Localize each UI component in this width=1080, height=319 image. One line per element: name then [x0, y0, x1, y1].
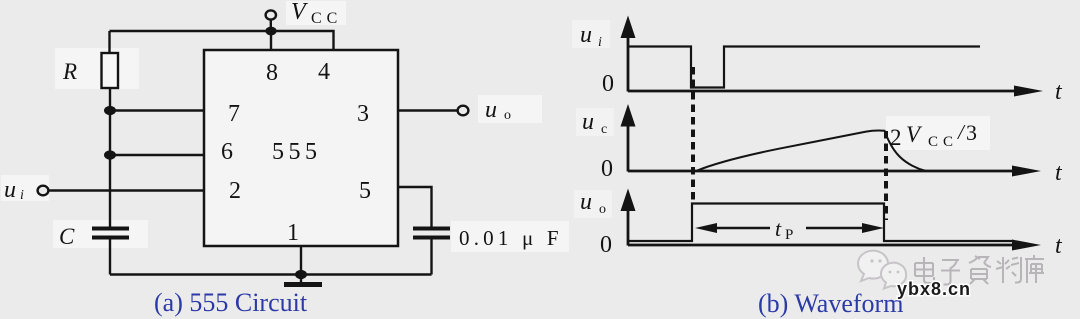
waveform u_o pulse trace	[629, 204, 1013, 242]
svg-text:0: 0	[601, 156, 613, 182]
svg-text:3: 3	[966, 120, 977, 145]
wire resistor bottom to node7	[109, 87, 111, 111]
wire node to pin4 corner	[271, 31, 334, 50]
svg-text:5: 5	[359, 178, 371, 204]
capacitor C1	[92, 229, 129, 238]
svg-text:1: 1	[287, 220, 299, 246]
svg-text:3: 3	[357, 101, 369, 127]
svg-text:c: c	[601, 122, 607, 137]
wire capacitor C bottom down	[109, 240, 111, 275]
node junction pin7	[104, 106, 116, 115]
svg-text:i: i	[598, 35, 602, 50]
svg-text:8: 8	[266, 60, 278, 86]
svg-text:CC: CC	[311, 10, 342, 27]
svg-text:7: 7	[228, 101, 240, 127]
svg-text:u: u	[580, 22, 592, 48]
axis u_c vertical	[627, 123, 630, 172]
svg-text:CC: CC	[928, 134, 958, 150]
svg-text:u: u	[580, 189, 592, 215]
label 2Vcc/3	[890, 120, 977, 150]
svg-text:6: 6	[221, 139, 233, 165]
waveform u_c exponential trace	[696, 131, 926, 171]
svg-text:u: u	[582, 109, 594, 135]
label u_i	[580, 22, 602, 50]
watermark logo bubbles	[858, 251, 906, 289]
svg-text:P: P	[785, 227, 793, 243]
wire node6 down to capacitor C	[109, 155, 111, 227]
node junction VCC	[265, 27, 276, 36]
axis u_c horizontal	[628, 170, 1018, 173]
svg-text:R: R	[62, 59, 77, 84]
op IC U1 555 box	[204, 50, 398, 246]
svg-text:0: 0	[600, 232, 612, 258]
waveform u_i trace	[629, 47, 980, 88]
dimension arrow t_P left	[695, 223, 770, 233]
label u_c	[582, 109, 607, 137]
dimension arrow t_P right	[806, 223, 884, 233]
power terminal VCC	[266, 10, 276, 31]
axis u_o horizontal	[628, 244, 1018, 247]
capacitor C2 0.01uF	[413, 229, 450, 238]
wire input u_i to pin 2	[48, 189, 204, 191]
label t_P	[775, 216, 793, 243]
char zi	[941, 260, 960, 285]
wire bottom rail	[110, 273, 432, 275]
svg-text:555: 555	[272, 139, 322, 165]
ground	[284, 275, 322, 285]
wire timing cap bottom to rail	[430, 240, 432, 275]
node junction pin6	[104, 150, 116, 159]
node junction ground	[295, 270, 307, 279]
svg-text:0.01 μ F: 0.01 μ F	[459, 226, 563, 250]
svg-text:4: 4	[318, 59, 330, 85]
input terminal u_i	[38, 186, 49, 196]
wire pin 1 lead down	[300, 246, 302, 275]
wire pin 3 to output terminal	[398, 109, 458, 111]
axis u_i horizontal	[628, 90, 1020, 93]
svg-text:2: 2	[890, 125, 902, 150]
svg-text:i: i	[20, 188, 24, 203]
watermark text dian zi zi liao ku	[915, 255, 1044, 285]
wire VCC rail top-left to node	[110, 30, 272, 32]
wire down to resistor top	[108, 31, 110, 53]
resistor R1	[102, 53, 119, 88]
output terminal u_o	[458, 106, 469, 116]
svg-text:(b) Waveform: (b) Waveform	[758, 289, 903, 318]
dashed guide line t1	[691, 67, 695, 203]
svg-text:V: V	[291, 0, 308, 25]
svg-text:t: t	[775, 216, 782, 241]
char liao	[996, 257, 1021, 283]
svg-text:u: u	[4, 177, 16, 203]
svg-text:ybx8.cn: ybx8.cn	[897, 279, 971, 299]
dashed guide line t2	[884, 131, 888, 220]
svg-text:2: 2	[229, 178, 241, 204]
label u_o	[485, 97, 511, 123]
wire node7 to pin 7	[110, 109, 204, 111]
svg-text:u: u	[485, 97, 497, 123]
wire node6 to pin 6	[110, 154, 204, 156]
wire pin 5 to timing cap	[398, 187, 432, 227]
label V_CC	[291, 0, 342, 27]
label u_i	[4, 177, 24, 203]
axis u_i vertical	[627, 34, 630, 92]
char dian	[915, 257, 934, 283]
svg-text:0: 0	[602, 71, 614, 97]
svg-text:o: o	[504, 108, 511, 123]
label u_o	[580, 189, 606, 217]
svg-text:o: o	[599, 202, 606, 217]
char zi2	[969, 256, 991, 284]
char ku	[1025, 255, 1044, 283]
axis u_o vertical	[627, 207, 630, 246]
svg-text:(a) 555 Circuit: (a) 555 Circuit	[154, 288, 308, 317]
wire pin 8 lead	[270, 31, 272, 50]
wire node7 to node6	[109, 111, 111, 156]
svg-text:C: C	[59, 224, 75, 249]
